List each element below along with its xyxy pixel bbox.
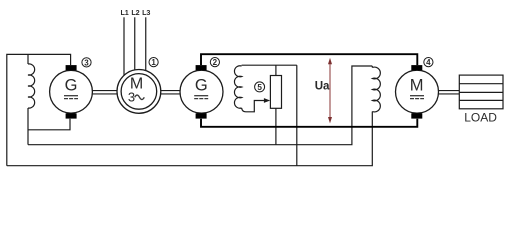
wire pot R5 bottom stem [275, 108, 277, 144]
label circled 1 [149, 58, 158, 68]
svg-text:M: M [410, 77, 424, 95]
svg-text:Ua: Ua [315, 80, 330, 93]
wire field negative rail [28, 66, 372, 145]
svg-text:4: 4 [426, 58, 431, 67]
DC symbol of G2 [194, 96, 208, 99]
wiper arrowhead into R5 [264, 98, 270, 103]
shaft M4 to LOAD [438, 90, 460, 92]
wire armature circuit thick bottom [201, 119, 417, 127]
wire coil F4 stem [371, 66, 373, 68]
svg-text:G: G [65, 77, 78, 95]
brush M4 bottom [411, 113, 422, 118]
inductor F3 (field of exciter G3) [28, 64, 35, 108]
svg-text:2: 2 [213, 58, 218, 67]
svg-text:3: 3 [84, 58, 89, 67]
wire wiper link from F2 [242, 101, 265, 112]
wire coil F3 stem bottom [27, 108, 29, 145]
wire phase L1 [123, 17, 125, 77]
wire phase L3 [145, 17, 147, 72]
wire armature circuit thick top [201, 54, 417, 127]
brush G2 top [196, 65, 207, 70]
label circled 2 [210, 58, 219, 68]
tilde of M1 [135, 95, 145, 99]
generator G2 circle [180, 70, 223, 113]
wire brush G3 bottom link [28, 119, 70, 130]
resistor R5 (potentiometer) [270, 76, 281, 109]
brush M4 top [411, 65, 422, 70]
motor M4 circle [396, 70, 439, 113]
svg-text:L2: L2 [131, 8, 139, 17]
svg-text:1: 1 [151, 58, 156, 67]
wire coil F3 stem top [27, 54, 29, 64]
inductor F2 (field of generator G2) [234, 66, 241, 109]
three-phase supply lines L1 L2 L3 [124, 17, 146, 77]
wire phase L2 [134, 17, 136, 71]
motor M1 outer circle [117, 70, 161, 114]
motor M1 inner circle [121, 74, 157, 110]
svg-text:3: 3 [128, 89, 135, 104]
DC symbol of M4 [410, 96, 424, 99]
svg-text:LOAD: LOAD [464, 110, 497, 124]
label circled 4 [424, 58, 433, 68]
wire pot R5 top stem [275, 65, 277, 75]
label circled 5 [255, 82, 265, 92]
brush G3 top [66, 65, 77, 70]
generator G3 circle [50, 70, 93, 113]
DC symbol of G3 [64, 96, 78, 99]
inductor F4 (field of motor M4) [372, 67, 380, 112]
svg-text:5: 5 [257, 83, 262, 92]
load box [459, 75, 503, 109]
wire potentiometer box right side [296, 65, 298, 166]
svg-text:L1: L1 [120, 8, 128, 17]
shaft G3 to M1 [91, 91, 459, 94]
voltage arrow Ua (red, double headed) [328, 58, 332, 124]
brush G3 bottom [66, 113, 77, 118]
svg-text:L3: L3 [142, 8, 150, 17]
shaft M1 to G2 [160, 90, 181, 92]
brush G2 bottom [196, 113, 207, 118]
wire potentiometer box top [242, 64, 297, 66]
svg-text:G: G [195, 77, 208, 95]
wire bottom rail (exciter + net) [7, 112, 373, 166]
wire exciter top L-rail [7, 54, 71, 165]
label circled 3 [82, 58, 91, 68]
